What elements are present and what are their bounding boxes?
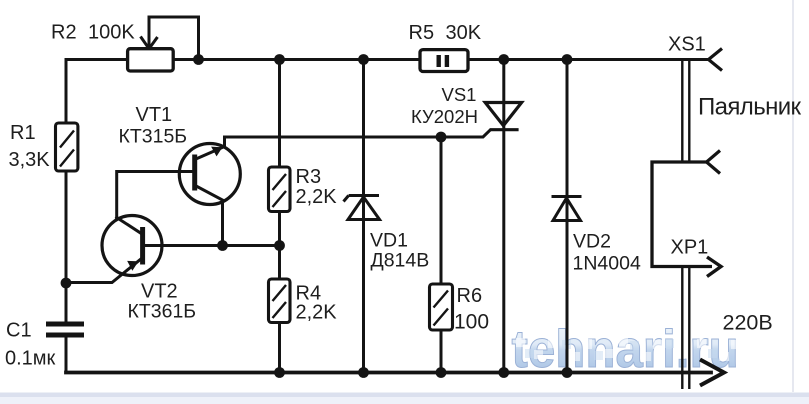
node top VD2 bbox=[562, 54, 573, 65]
wire gate line VT1 collector to VS1 bbox=[225, 131, 490, 138]
node bottom R4 bbox=[274, 367, 285, 378]
svg-text:2,2K: 2,2K bbox=[296, 186, 338, 208]
svg-text:VD2: VD2 bbox=[573, 231, 611, 253]
wire VS1 branch bbox=[502, 60, 505, 373]
transistor VT1 bbox=[179, 144, 240, 205]
svg-text:R6: R6 bbox=[457, 285, 483, 307]
capacitor C1 bbox=[46, 324, 84, 335]
connector XS1 second contact arrow bbox=[707, 151, 721, 174]
VT1 emitter arrow bbox=[212, 147, 222, 155]
node bottom VD2 bbox=[562, 367, 573, 378]
wire VT2 emitter to left rail bbox=[66, 259, 142, 283]
svg-text:0.1мк: 0.1мк bbox=[5, 348, 56, 370]
wire bottom rail bbox=[66, 371, 711, 375]
wire VT1 base bbox=[117, 172, 193, 218]
wire VT2 collector diag bbox=[117, 218, 141, 234]
svg-text:XP1: XP1 bbox=[671, 237, 709, 259]
wire VT1 emitter to gate line bbox=[197, 137, 225, 159]
node top VD1 bbox=[358, 54, 369, 65]
svg-text:XS1: XS1 bbox=[668, 34, 706, 56]
resistor R3 bbox=[269, 167, 291, 212]
svg-text:Паяльник: Паяльник bbox=[698, 94, 802, 121]
svg-text:tehnari.ru: tehnari.ru bbox=[512, 319, 739, 378]
right faint border bbox=[792, 0, 794, 392]
svg-text:1N4004: 1N4004 bbox=[573, 253, 641, 275]
diode VD2 bbox=[552, 197, 582, 221]
R2 wiper arrow bbox=[141, 37, 158, 49]
wire VT1 collector down bbox=[197, 187, 223, 246]
transistor VT2 bbox=[102, 216, 162, 276]
wire VD1 branch bbox=[362, 60, 365, 373]
soldering iron bracket bbox=[652, 162, 712, 267]
svg-text:Д814В: Д814В bbox=[371, 250, 430, 272]
svg-text:КУ202Н: КУ202Н bbox=[411, 106, 478, 127]
node gate R6 bbox=[436, 132, 447, 143]
svg-text:R3: R3 bbox=[296, 166, 322, 188]
svg-text:VT2: VT2 bbox=[141, 281, 178, 303]
resistor R4 bbox=[269, 279, 291, 323]
node bottom R6 bbox=[436, 367, 447, 378]
wire VD2 branch bbox=[566, 60, 569, 373]
svg-text:КТ361Б: КТ361Б bbox=[128, 301, 197, 323]
resistor R5 bbox=[420, 50, 468, 72]
bottom page band bbox=[0, 393, 809, 398]
wire VT2 base to divider bbox=[143, 244, 280, 247]
VT2 emitter arrow bbox=[128, 261, 138, 269]
connector double line bbox=[682, 60, 689, 390]
svg-text:220В: 220В bbox=[723, 311, 773, 335]
wire R6 branch bbox=[440, 137, 443, 373]
node VT1 collector divider bbox=[217, 240, 228, 251]
svg-text:3,3K: 3,3K bbox=[9, 149, 51, 171]
svg-text:R1: R1 bbox=[10, 122, 36, 144]
svg-text:100K: 100K bbox=[88, 21, 135, 43]
connector XP1 arrow bbox=[707, 257, 721, 277]
wire top rail right bbox=[468, 58, 709, 61]
node left rail emitter bbox=[61, 278, 72, 289]
svg-text:R2: R2 bbox=[51, 21, 77, 43]
svg-text:C1: C1 bbox=[6, 320, 32, 342]
resistor R6 bbox=[430, 284, 453, 330]
svg-text:VD1: VD1 bbox=[370, 230, 408, 252]
svg-text:VT1: VT1 bbox=[136, 104, 173, 126]
node R3 R4 junction bbox=[274, 240, 285, 251]
svg-text:КТ315Б: КТ315Б bbox=[119, 126, 188, 148]
connector XS1 top contact arrow bbox=[709, 49, 723, 71]
wire top rail left bbox=[66, 58, 128, 61]
zener diode VD1 bbox=[344, 196, 380, 220]
connector 220V plug arrow bbox=[700, 360, 724, 386]
node top VS1 bbox=[498, 54, 509, 65]
resistor R1 bbox=[56, 123, 78, 171]
watermark tehnari.ru bbox=[512, 319, 741, 378]
svg-text:100: 100 bbox=[454, 311, 489, 334]
wire left rail bbox=[65, 60, 68, 373]
thyristor VS1 bbox=[485, 103, 521, 130]
svg-text:30K: 30K bbox=[446, 22, 482, 44]
node bottom VS1 bbox=[498, 367, 509, 378]
svg-text:R5: R5 bbox=[409, 22, 435, 44]
svg-text:2,2K: 2,2K bbox=[296, 302, 338, 324]
wire R2 wiper loop bbox=[149, 17, 199, 60]
node bottom VD1 bbox=[358, 367, 369, 378]
svg-text:VS1: VS1 bbox=[442, 84, 477, 105]
wire R3 R4 branch bbox=[278, 60, 281, 373]
node top pot output bbox=[193, 54, 204, 65]
resistor R2 100K potentiometer bbox=[128, 49, 174, 71]
wire top rail middle bbox=[174, 58, 421, 61]
node top R3 bbox=[274, 54, 285, 65]
